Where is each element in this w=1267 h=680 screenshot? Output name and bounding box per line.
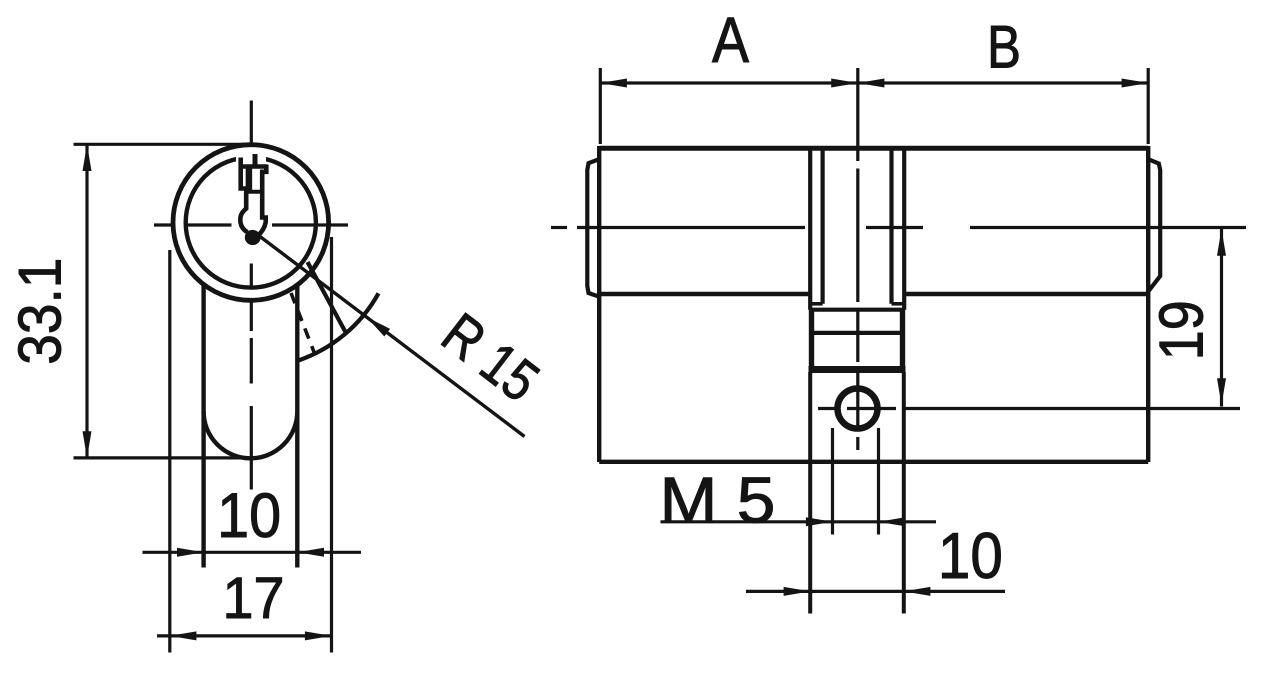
19 arrow up (1217, 229, 1226, 256)
cam box left edge (809, 310, 814, 370)
svg-text:19: 19 (1148, 300, 1217, 360)
svg-text:10: 10 (217, 481, 281, 551)
M5 left arrow (outside, pointing right) (806, 517, 833, 526)
A right arrow (831, 79, 858, 88)
keyway top bar (241, 164, 268, 169)
B right arrow (1122, 79, 1149, 88)
dimension 10 (left view) line (143, 551, 362, 554)
svg-text:B: B (987, 14, 1021, 81)
body left edge (597, 146, 601, 462)
dimension A line (600, 81, 858, 84)
M5 right extension line (877, 428, 880, 535)
slot step right (892, 302, 905, 306)
svg-text:A: A (712, 4, 749, 76)
cam box right edge (900, 310, 905, 370)
keyway top nub (253, 154, 258, 167)
dimension 33.1 bottom extension line (74, 456, 244, 459)
33.1 arrow up (83, 144, 92, 171)
keyway slot inner wall left (820, 150, 824, 304)
column right line below cam (ext. line for bottom 10) (902, 372, 906, 614)
keyway left wall (240, 158, 247, 233)
keyway slot outer wall left (808, 150, 812, 310)
screw hole circle (838, 389, 878, 429)
barrel bottom edge right segment (904, 292, 1148, 296)
keyway tongue bottom bar (245, 190, 262, 194)
keyway right wall (257, 165, 266, 237)
cam flank solid line (308, 262, 347, 333)
keyway slot inner wall right (889, 150, 893, 304)
svg-text:R 15: R 15 (430, 301, 550, 415)
B left arrow (858, 79, 885, 88)
svg-text:M 5: M 5 (660, 464, 776, 537)
screw hole horizontal center line (818, 407, 1240, 410)
svg-text:10: 10 (938, 519, 1003, 592)
keyway slot interior mask (236, 149, 266, 174)
33.1 arrow down (83, 431, 92, 458)
17 right arrow (305, 631, 332, 640)
body bottom arc (204, 412, 298, 459)
body left side line (also ext. line for 10) (201, 285, 205, 568)
left end cap (587, 159, 599, 297)
svg-text:33.1: 33.1 (6, 258, 74, 365)
cam box bottom thick edge (809, 366, 906, 373)
dimension 19 line (1220, 228, 1223, 407)
barrel horizontal center line (551, 226, 1246, 229)
A left arrow (600, 79, 627, 88)
10 right arrow (outside, pointing left) (904, 587, 931, 596)
keyway bottom blob (245, 230, 261, 245)
A/B dimension left extension line (599, 68, 602, 144)
inner circle of cylinder plug (186, 157, 316, 287)
dimension 10 (right view) line (746, 590, 1005, 593)
19 arrow down (1217, 378, 1226, 405)
M5 left extension line (831, 428, 834, 535)
dimension 33.1 line (85, 144, 88, 458)
column left line below cam (ext. line for bottom 10) (808, 372, 812, 614)
10 right arrow (outside, pointing left) (297, 548, 324, 557)
cam flank dashed line (291, 293, 314, 352)
svg-text:17: 17 (223, 566, 285, 631)
dimension 17 line (157, 634, 333, 637)
dimension B line (858, 81, 1148, 84)
foot bottom edge (599, 460, 1148, 464)
cam box divider line (809, 331, 905, 335)
R15 leader line (256, 234, 525, 437)
body right side line (also ext. line for 10) (295, 285, 299, 568)
dimension M5 line (661, 520, 937, 523)
M5 right arrow (outside, pointing left) (879, 517, 906, 526)
dimension 17 right extension line (330, 237, 333, 653)
body top edge (599, 146, 1148, 151)
body right edge (1146, 146, 1150, 462)
right end cap (1148, 159, 1160, 291)
A/B dimension right extension line (1147, 68, 1150, 144)
R15 leader arrowhead (367, 317, 391, 337)
horizontal center line of left view (154, 223, 348, 226)
10 left arrow (outside, pointing right) (784, 587, 811, 596)
dimension 17 left extension line (168, 250, 171, 653)
keyway center tongue (246, 169, 253, 191)
17 left arrow (170, 631, 197, 640)
R15 solid arc (cam sweep) (298, 293, 378, 360)
keyway slot outer wall right (902, 150, 906, 310)
barrel bottom edge left segment (599, 292, 810, 296)
middle vertical center line (856, 68, 859, 450)
cam box top edge (809, 308, 905, 312)
outer circle of cylinder head (173, 145, 329, 301)
slot step left (810, 302, 822, 306)
dimension 33.1 top extension line (74, 143, 259, 146)
10 left arrow (outside, pointing right) (177, 548, 204, 557)
vertical center line of left view (250, 101, 253, 490)
